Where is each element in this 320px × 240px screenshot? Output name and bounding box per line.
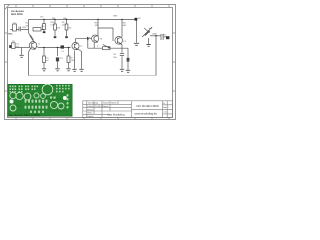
wire down from out node to return bbox=[155, 36, 157, 76]
wire attack line bbox=[88, 47, 128, 49]
ground symbol input bbox=[19, 55, 23, 57]
svg-text:Datum: Datum bbox=[87, 105, 93, 108]
capacitor C3 electrolytic bbox=[57, 48, 59, 57]
svg-text:Datum: Datum bbox=[103, 102, 109, 105]
potentiometer Volume diagonal bbox=[142, 27, 152, 37]
stub resistor R4 from rail bbox=[54, 20, 56, 37]
svg-text:Vol: Vol bbox=[149, 27, 153, 30]
wire drop to ground from input bbox=[21, 48, 23, 55]
capacitor C7 electrolytic drop bbox=[127, 48, 129, 58]
svg-text:Bearb.: Bearb. bbox=[87, 108, 94, 111]
stub resistor R3 from rail bbox=[43, 20, 45, 32]
frame grid tick marks left bbox=[5, 33, 8, 91]
wire T1 output line right bbox=[37, 46, 71, 49]
title block divider right big cells bbox=[132, 108, 163, 110]
wire drop x44 bbox=[43, 48, 45, 57]
title block horizontals left bbox=[83, 104, 132, 114]
svg-text:OUT: OUT bbox=[162, 33, 167, 36]
node stub blob x66 bbox=[65, 36, 68, 38]
wire T2 top bbox=[76, 39, 92, 43]
PCB big circle footprint bbox=[42, 84, 53, 95]
svg-text:Blatt: Blatt bbox=[163, 106, 167, 109]
wire T4 emitter down bbox=[120, 44, 123, 53]
svg-text:Name: Name bbox=[111, 102, 117, 105]
wire T3 emitter to attack line bbox=[93, 42, 95, 48]
wire drop x88 to attack line bbox=[87, 39, 89, 49]
PCB rings middle bbox=[34, 93, 39, 98]
input jack box bbox=[13, 24, 17, 31]
frame grid tick marks top bbox=[16, 5, 169, 8]
wire bottom return line bbox=[29, 75, 157, 77]
title block right column rows bbox=[163, 101, 173, 118]
resistor R6 bbox=[43, 56, 46, 63]
PCB oval pad columns center-bottom bbox=[25, 100, 27, 103]
svg-text:Datum: Datum bbox=[87, 115, 93, 118]
capacitor C4 series bbox=[61, 45, 65, 48]
title block outer bbox=[83, 101, 173, 118]
svg-text:Name: Name bbox=[103, 105, 109, 108]
node input lower terminal bbox=[9, 45, 11, 48]
drawing frame inner border bbox=[8, 8, 173, 118]
stub resistor R5 from rail bbox=[66, 20, 68, 37]
ground symbol x44 bbox=[42, 69, 46, 71]
potentiometer Attack bbox=[103, 47, 111, 50]
transistor T3 bbox=[92, 35, 99, 42]
ground symbol C6 bbox=[120, 69, 124, 71]
title block verticals bbox=[87, 101, 163, 118]
PCB pad rows top-left bbox=[10, 86, 12, 88]
wire input lower bbox=[15, 47, 27, 49]
wire feedback loop bbox=[98, 28, 113, 41]
node stub blob x44 bbox=[43, 31, 46, 33]
wire volume wiper out bbox=[150, 35, 161, 37]
PCB pad row 3 bbox=[10, 91, 11, 92]
PCB mounting hole white dot left bbox=[10, 100, 14, 104]
node rail junction dots bbox=[43, 19, 44, 20]
ground symbol x81 bbox=[79, 69, 83, 71]
PCB mounting hole white dot right bbox=[63, 96, 67, 100]
frame corner chamfer bbox=[5, 5, 10, 10]
wire T1 emitter down bbox=[29, 49, 31, 76]
wire from rail end down bbox=[136, 21, 138, 43]
wire T1 base line bbox=[27, 47, 30, 49]
capacitor C2 horizontal bbox=[33, 28, 41, 31]
transistor T2 bbox=[72, 42, 79, 49]
capacitor C1 bbox=[19, 27, 21, 32]
wire top supply rail bbox=[29, 19, 137, 21]
ground symbol battery bbox=[134, 43, 139, 45]
drawing frame outer border bbox=[5, 5, 176, 120]
title block bbox=[83, 101, 173, 118]
PCB trace texture bbox=[10, 92, 68, 111]
svg-text:log: log bbox=[16, 45, 19, 48]
ground symbol x57 bbox=[55, 69, 59, 71]
node stub blob x55 bbox=[54, 36, 57, 38]
wire pot lower leg bbox=[148, 38, 150, 44]
resistor R2 lower input bbox=[12, 43, 16, 49]
frame grid tick marks right bbox=[173, 33, 176, 91]
svg-text:1 Bl.: 1 Bl. bbox=[164, 111, 168, 114]
node end blob of rail bbox=[135, 18, 138, 21]
svg-text:100k: 100k bbox=[71, 59, 75, 62]
node junction volume bbox=[155, 35, 157, 37]
ground symbol C7 bbox=[126, 70, 130, 72]
node junction T2 top bbox=[87, 37, 88, 40]
ground symbol T2 emitter bbox=[72, 69, 76, 71]
svg-text:1/4W: 1/4W bbox=[62, 23, 67, 26]
PCB rings bottom right bbox=[50, 101, 57, 108]
node OUT terminal bbox=[166, 36, 169, 39]
wire riser from input to rail bbox=[28, 20, 30, 34]
svg-text:C4: C4 bbox=[61, 50, 63, 53]
wire input line bbox=[10, 29, 28, 31]
PCB photo bottom-left bbox=[8, 84, 73, 117]
ground symbol x68 bbox=[66, 69, 70, 71]
svg-text:MK2 09/05: MK2 09/05 bbox=[11, 13, 23, 16]
svg-text:1: 1 bbox=[168, 106, 169, 109]
svg-text:Das Musikding: Das Musikding bbox=[108, 113, 126, 116]
wire T2 emitter down bbox=[74, 51, 76, 69]
svg-text:1/4W: 1/4W bbox=[50, 23, 55, 26]
wire drop x81 bbox=[78, 49, 82, 69]
ground symbol pot leg bbox=[146, 45, 150, 47]
node junction dots mid line bbox=[43, 47, 45, 49]
PCB rings left pair bbox=[10, 92, 16, 98]
svg-text:Aenderung: Aenderung bbox=[88, 102, 99, 105]
svg-text:4u7: 4u7 bbox=[46, 59, 49, 62]
svg-text:Gepr.: Gepr. bbox=[87, 112, 93, 115]
frame grid tick marks bottom bbox=[16, 118, 169, 120]
transistor T1 bbox=[29, 42, 37, 50]
capacitor C8 output bbox=[161, 34, 163, 40]
resistor R7 bbox=[68, 48, 70, 57]
wire T3 collector drop from rail bbox=[97, 20, 99, 29]
svg-text:BAT: BAT bbox=[113, 15, 118, 18]
svg-text:www.musikding.de: www.musikding.de bbox=[135, 113, 158, 116]
wire T4 collector drop from rail bbox=[121, 20, 123, 38]
PCB board base bbox=[8, 84, 73, 116]
transistor T4 bbox=[115, 37, 123, 45]
capacitor C6 bbox=[120, 54, 124, 56]
svg-text:Der Bender MK2: Der Bender MK2 bbox=[137, 104, 160, 108]
resistor R1 diagonal at T1 collector bbox=[29, 33, 35, 42]
PCB pad rows top-right bbox=[56, 85, 58, 87]
